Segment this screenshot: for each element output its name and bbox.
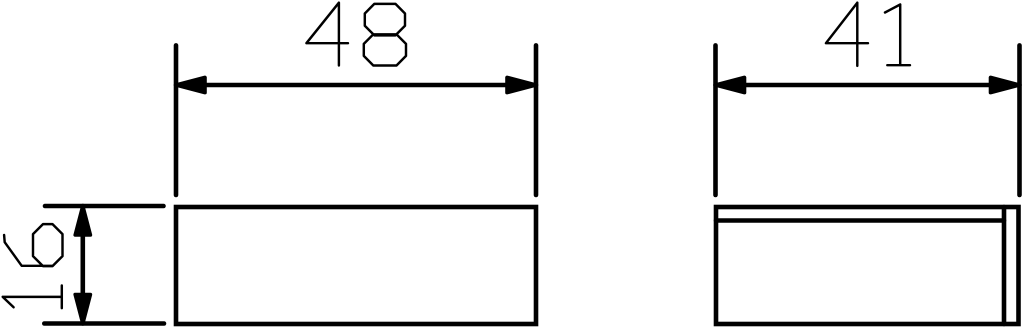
- right view: part outline rectangle: [716, 207, 1019, 324]
- dim text 48: digit 4: [306, 3, 348, 66]
- dim text 48: digit 8: [364, 4, 406, 66]
- dim 48 dimension line: [176, 83, 536, 88]
- dim text 16 (rotated): digit 6: [4, 224, 62, 266]
- dim 16 dimension line: [81, 206, 86, 324]
- dim 41 extension line right: [1017, 45, 1022, 195]
- dim 48 extension line left: [174, 45, 179, 195]
- dim 41 arrowhead left: [716, 77, 745, 92]
- dim 16 arrowhead bottom: [75, 295, 90, 324]
- dim text 41: digit 1: [885, 5, 910, 66]
- left view: part outline rectangle: [176, 207, 536, 324]
- dim 41 dimension line: [716, 83, 1020, 88]
- dim text 16 (rotated): digit 1: [3, 224, 63, 308]
- dim 16 arrowhead top: [75, 206, 90, 235]
- dim 16 extension line top: [45, 204, 164, 209]
- right view: inner horizontal edge: [716, 218, 1004, 223]
- dim 41 arrowhead right: [991, 77, 1020, 92]
- dim 48 extension line right: [534, 45, 539, 195]
- dim 41 extension line left: [713, 45, 718, 195]
- dim 48 arrowhead right: [507, 77, 536, 92]
- dim 48 arrowhead left: [176, 77, 205, 92]
- right view: inner vertical edge: [1002, 207, 1007, 324]
- dim text 41: digit 4: [826, 3, 868, 66]
- dim 16 extension line bottom: [44, 321, 164, 326]
